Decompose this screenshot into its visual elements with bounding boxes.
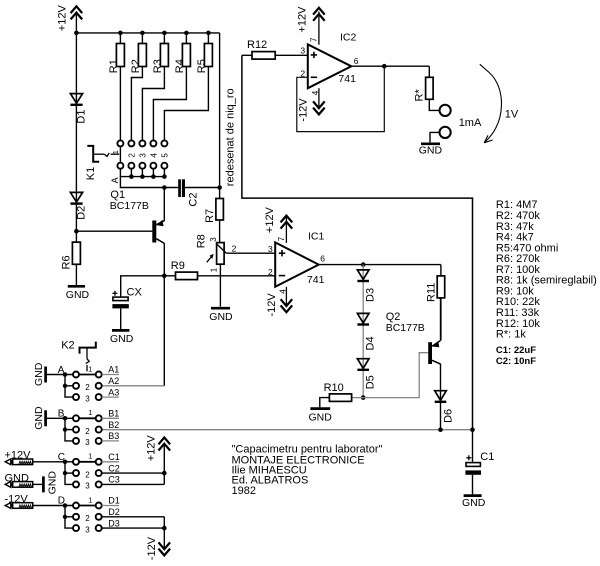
supply arrow +12V at bank C xyxy=(145,435,170,485)
svg-text:1: 1 xyxy=(88,408,92,417)
wire rail end down to C2 node xyxy=(219,33,221,188)
connector +12V plug xyxy=(5,450,74,465)
svg-text:D1: D1 xyxy=(76,110,88,124)
IC2 pin7 +12V arrow xyxy=(297,6,325,45)
resistor R10 xyxy=(320,382,363,408)
svg-text:A: A xyxy=(110,177,120,183)
svg-text:1: 1 xyxy=(88,495,92,504)
svg-text:C1: 22uF: C1: 22uF xyxy=(496,345,536,356)
switch K1 contact column 1 xyxy=(111,140,124,176)
svg-text:1: 1 xyxy=(88,452,92,461)
svg-text:R7: R7 xyxy=(204,209,216,223)
switch K2 bank D xyxy=(58,495,102,534)
svg-text:A1: A1 xyxy=(108,365,119,375)
svg-text:C1: C1 xyxy=(108,452,120,462)
svg-text:D2: D2 xyxy=(108,507,120,517)
svg-text:D3: D3 xyxy=(108,518,120,528)
IC1 pin4 -12V arrow xyxy=(266,287,292,317)
title block xyxy=(232,444,383,497)
svg-text:2: 2 xyxy=(85,427,90,436)
wire A2 xyxy=(102,385,165,387)
svg-text:1982: 1982 xyxy=(232,485,256,497)
capacitor C1 polarized xyxy=(465,430,494,495)
svg-text:+12V: +12V xyxy=(297,6,309,33)
svg-text:GND: GND xyxy=(309,411,333,423)
svg-text:-12V: -12V xyxy=(146,536,158,560)
svg-text:1: 1 xyxy=(88,364,92,373)
svg-text:3: 3 xyxy=(138,153,147,158)
node +12V rail junction xyxy=(74,31,79,36)
svg-text:GND: GND xyxy=(462,497,486,509)
capacitor C2 xyxy=(178,179,219,206)
node bus col3 xyxy=(140,174,145,179)
svg-text:C3: C3 xyxy=(108,475,120,485)
svg-text:R2: R2 xyxy=(130,59,142,73)
trimmer R8 xyxy=(196,234,237,306)
terminal output + xyxy=(440,105,451,116)
svg-text:741: 741 xyxy=(338,73,356,85)
wire K1 common bus xyxy=(120,177,178,188)
svg-text:R10: R10 xyxy=(324,382,344,394)
svg-text:3: 3 xyxy=(85,394,90,403)
diode D1 xyxy=(70,33,87,204)
op-amp IC2 xyxy=(300,32,358,89)
ground at K2 bank B xyxy=(33,406,73,430)
svg-text:CX: CX xyxy=(127,287,143,299)
svg-text:R11: R11 xyxy=(426,283,438,302)
svg-text:1: 1 xyxy=(209,267,218,272)
ground below terminal xyxy=(419,144,443,157)
svg-text:+12V: +12V xyxy=(57,5,69,32)
wire Q1 collector down to K2 A2 xyxy=(163,276,165,386)
svg-text:A3: A3 xyxy=(108,387,119,397)
switch K1 contact column 4 xyxy=(149,140,158,176)
wire R12 to bottom bus (long L) xyxy=(242,55,473,429)
svg-text:2: 2 xyxy=(85,514,90,523)
svg-text:B3: B3 xyxy=(108,431,119,441)
svg-text:D3: D3 xyxy=(365,288,377,302)
wire terminal to gnd xyxy=(430,132,439,142)
svg-text:7: 7 xyxy=(277,236,286,241)
svg-text:IC2: IC2 xyxy=(340,32,357,44)
wire C1 stub xyxy=(102,461,119,463)
svg-text:R3: R3 xyxy=(152,59,164,73)
resistor R7 xyxy=(204,188,224,243)
ground below R6 xyxy=(66,286,90,301)
connector GND plug xyxy=(5,473,43,488)
supply arrow +12V top left xyxy=(57,5,83,33)
svg-text:R8: R8 xyxy=(196,234,208,248)
svg-text:GND: GND xyxy=(66,289,90,301)
svg-text:GND: GND xyxy=(33,362,45,386)
diode D6 xyxy=(435,391,455,430)
node C2 +12V xyxy=(162,471,167,476)
svg-text:D4: D4 xyxy=(365,336,377,350)
capacitor values xyxy=(496,345,536,367)
node bus col5 xyxy=(162,174,167,179)
svg-text:2: 2 xyxy=(232,243,237,253)
resistor R11 xyxy=(426,265,445,341)
svg-text:D: D xyxy=(58,496,65,507)
switch K2 bank C xyxy=(58,452,102,491)
wire A3 stub xyxy=(102,396,119,398)
node rail R3 xyxy=(162,31,167,36)
node rail R5 xyxy=(206,31,211,36)
svg-text:R*: R* xyxy=(413,89,425,102)
svg-text:D6: D6 xyxy=(442,409,454,423)
wire IC2 feedback loop xyxy=(297,66,385,131)
svg-text:Q2: Q2 xyxy=(386,311,401,323)
connector -12V plug xyxy=(5,493,74,508)
svg-text:C2: C2 xyxy=(108,463,120,473)
wire bottom bus B2 xyxy=(102,429,473,431)
node rail R2 xyxy=(140,31,145,36)
svg-text:D1: D1 xyxy=(108,496,120,506)
resistor R6 xyxy=(61,231,81,285)
wire R10 node to Q2 base xyxy=(363,353,428,398)
svg-text:BC177B: BC177B xyxy=(386,322,425,334)
svg-text:C2: 10nF: C2: 10nF xyxy=(496,356,536,367)
svg-text:2: 2 xyxy=(85,470,90,479)
node bus col4 xyxy=(151,174,156,179)
diode D2 xyxy=(70,192,87,231)
svg-text:3: 3 xyxy=(85,482,90,491)
svg-text:R5: R5 xyxy=(196,59,208,73)
svg-text:A: A xyxy=(58,365,65,376)
resistor R* xyxy=(413,66,439,110)
svg-text:K2: K2 xyxy=(61,339,74,351)
svg-text:GND: GND xyxy=(419,144,443,156)
svg-text:C2: C2 xyxy=(187,193,199,207)
svg-text:6: 6 xyxy=(320,254,325,264)
svg-text:D5: D5 xyxy=(365,375,377,389)
svg-text:741: 741 xyxy=(307,274,325,286)
svg-text:redesenat de niq_ro: redesenat de niq_ro xyxy=(225,88,237,186)
node rail R1 xyxy=(118,31,123,36)
wire C2 to +12V line xyxy=(102,472,165,474)
svg-text:R1: R1 xyxy=(108,59,120,73)
wire +12V rail xyxy=(76,32,219,34)
svg-text:B1: B1 xyxy=(108,409,119,419)
switch K1 wiper arm xyxy=(85,146,119,180)
node bus col2 xyxy=(129,174,134,179)
svg-text:3: 3 xyxy=(268,244,273,254)
svg-text:+12V: +12V xyxy=(264,206,276,233)
svg-text:R6: R6 xyxy=(61,255,73,269)
IC2 pin4 -12V arrow xyxy=(298,88,325,121)
svg-text:6: 6 xyxy=(354,56,359,66)
ground below CX xyxy=(110,330,134,345)
IC1 pin7 +12V arrow xyxy=(264,206,292,242)
node D5 R10 Q2 junction xyxy=(361,395,366,400)
resistor R1 xyxy=(108,33,124,141)
ground at K2 bank A xyxy=(33,362,73,386)
svg-text:3: 3 xyxy=(300,46,305,56)
diode D4 xyxy=(357,313,376,350)
resistor R12 xyxy=(242,39,308,59)
switch K1 contact column 2 xyxy=(127,140,136,176)
svg-text:4: 4 xyxy=(279,289,288,294)
resistor R4 xyxy=(153,33,190,141)
svg-text:1mA: 1mA xyxy=(459,117,482,129)
svg-text:R9: R9 xyxy=(171,260,185,272)
node D3 -12V xyxy=(162,526,167,531)
svg-text:4: 4 xyxy=(149,153,158,158)
svg-text:BC177B: BC177B xyxy=(110,200,149,212)
switch K1 contact column 5 xyxy=(160,140,169,176)
svg-text:K1: K1 xyxy=(85,167,97,180)
svg-text:R12: R12 xyxy=(247,39,267,51)
resistor R5 xyxy=(164,33,212,141)
svg-text:3: 3 xyxy=(85,438,90,447)
svg-text:3: 3 xyxy=(209,237,218,242)
capacitor CX polarized xyxy=(112,276,164,329)
svg-text:R4: R4 xyxy=(174,59,186,73)
switch K1 contact column 3 xyxy=(138,140,147,176)
switch K2 wiper arm xyxy=(61,339,96,371)
svg-text:GND: GND xyxy=(46,471,58,495)
svg-text:-12V: -12V xyxy=(266,293,278,317)
diode D5 xyxy=(357,359,376,390)
svg-text:2: 2 xyxy=(268,267,273,277)
ground below R10 xyxy=(309,409,333,424)
node D2 R6 base junction xyxy=(74,229,79,234)
wire diode chain xyxy=(362,265,364,398)
svg-text:R*: 1k: R*: 1k xyxy=(496,329,526,341)
svg-text:+12V: +12V xyxy=(145,435,157,462)
svg-text:4: 4 xyxy=(311,90,320,95)
node rail R4 xyxy=(184,31,189,36)
svg-text:1V: 1V xyxy=(505,108,519,120)
node IC2 output feedback xyxy=(382,64,387,69)
wire C3 to +12V line xyxy=(102,483,165,485)
svg-text:IC1: IC1 xyxy=(308,230,325,242)
ground below R8 xyxy=(209,308,233,323)
svg-text:-12V: -12V xyxy=(298,98,310,122)
svg-text:GND: GND xyxy=(33,406,45,430)
svg-text:GND: GND xyxy=(110,333,134,345)
transistor Q2 xyxy=(386,298,441,402)
wire D1 stub xyxy=(102,505,119,507)
switch K2 bank A xyxy=(58,364,102,403)
curved arrow 1V span xyxy=(480,64,502,143)
node C2 R7 junction xyxy=(217,185,222,190)
terminal output - xyxy=(440,127,451,138)
wire D2 to -12V line xyxy=(102,516,165,518)
svg-text:7: 7 xyxy=(310,37,319,42)
svg-text:C1: C1 xyxy=(480,451,494,463)
svg-text:3: 3 xyxy=(85,525,90,534)
svg-text:B: B xyxy=(58,409,65,420)
svg-text:2: 2 xyxy=(127,153,136,158)
svg-text:GND: GND xyxy=(209,311,233,323)
svg-text:A2: A2 xyxy=(108,376,119,386)
node R9 CX collector junction xyxy=(162,274,167,279)
op-amp IC1 xyxy=(268,230,325,286)
wire A1 stub xyxy=(102,374,119,376)
value list xyxy=(496,199,597,340)
node bus C1 xyxy=(470,427,475,432)
switch K2 bank B xyxy=(58,408,102,447)
ground below C1 xyxy=(462,496,486,509)
wire IC2 output xyxy=(351,65,429,67)
svg-text:D2: D2 xyxy=(76,206,88,220)
svg-text:5: 5 xyxy=(160,153,169,158)
wire IC1 output xyxy=(319,264,441,266)
wire B1 stub xyxy=(102,417,119,419)
svg-text:2: 2 xyxy=(85,383,90,392)
svg-text:B2: B2 xyxy=(108,420,119,430)
node IC1 out D3 xyxy=(361,262,366,267)
svg-text:1: 1 xyxy=(111,150,120,154)
diode D3 xyxy=(357,270,376,302)
resistor R2 xyxy=(130,33,146,141)
transistor Q1 xyxy=(76,188,164,276)
resistor R3 xyxy=(142,33,168,141)
svg-text:C: C xyxy=(58,452,65,463)
resistor R9 xyxy=(164,260,275,280)
supply arrow -12V at bank D xyxy=(146,517,170,560)
node Q1 emitter bus xyxy=(162,185,167,190)
node D6 bus xyxy=(438,427,443,432)
wire R8 wiper to IC1 pin3 xyxy=(226,252,275,254)
ground bar for GND plug xyxy=(43,471,58,495)
wire D3 to -12V line xyxy=(102,527,165,529)
wire B3 stub xyxy=(102,440,119,442)
